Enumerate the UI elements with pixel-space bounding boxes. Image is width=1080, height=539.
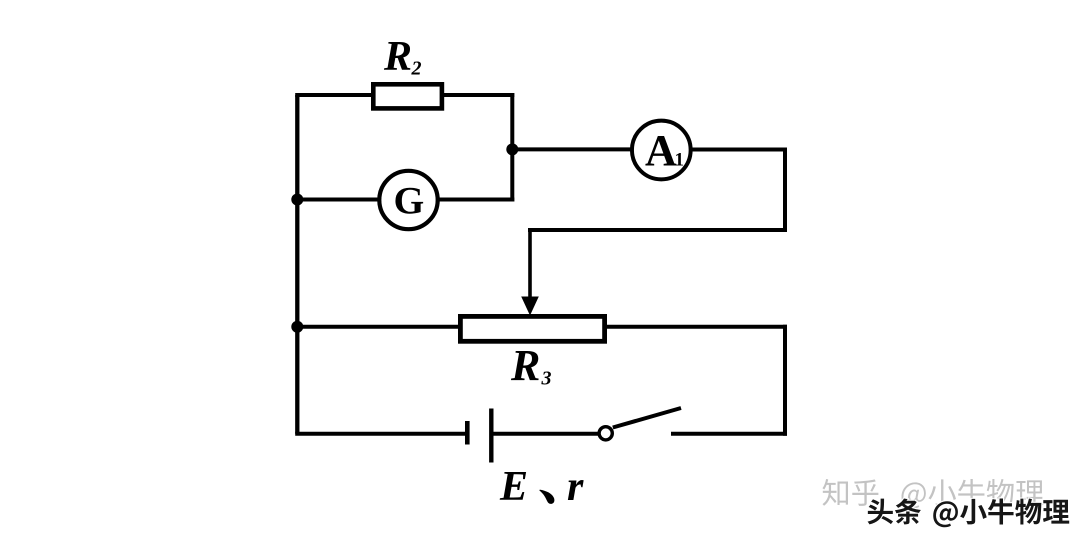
wire left to R3 bbox=[297, 325, 462, 329]
wire top-left horizontal to R2 bbox=[295, 93, 373, 97]
svg-text:R: R bbox=[383, 34, 412, 80]
switch pivot circle bbox=[599, 427, 612, 440]
wire junction to A1 bbox=[512, 147, 632, 151]
wiper arrowhead bbox=[521, 297, 539, 316]
wire left to G bbox=[297, 198, 380, 202]
svg-text:1: 1 bbox=[675, 150, 685, 171]
svg-text:R: R bbox=[510, 341, 540, 390]
svg-text:2: 2 bbox=[411, 58, 422, 80]
node junction left G branch bbox=[291, 194, 303, 206]
rheostat R3 body bbox=[460, 316, 604, 341]
battery positive plate (long) bbox=[489, 409, 493, 463]
label dunhao comma bbox=[539, 490, 554, 504]
svg-text:A: A bbox=[645, 126, 677, 175]
wire right vertical upper bbox=[783, 148, 787, 233]
wire right vertical lower bbox=[783, 325, 787, 436]
watermark zhihu line (gray) bbox=[822, 479, 848, 506]
ammeter A1 bbox=[632, 121, 691, 180]
svg-text:3: 3 bbox=[541, 368, 552, 390]
wire R2 to top-right corner bbox=[443, 93, 514, 97]
wire R3 to right bbox=[603, 325, 787, 329]
wire switch to right bbox=[671, 432, 787, 436]
wire G to right vertical bbox=[438, 198, 514, 202]
wire right vertical of input mesh bbox=[510, 93, 514, 202]
node junction left R3 bbox=[291, 321, 303, 333]
wire battery to switch bbox=[491, 432, 599, 436]
svg-text:G: G bbox=[394, 179, 425, 223]
wire A1 to right bbox=[691, 148, 787, 152]
switch blade bbox=[613, 408, 681, 428]
watermark toutiao line (dark) bbox=[868, 499, 893, 525]
battery negative plate (short) bbox=[465, 421, 470, 445]
node junction to A1 branch bbox=[506, 143, 518, 155]
svg-text:r: r bbox=[567, 464, 584, 510]
resistor R2 body bbox=[373, 84, 442, 108]
wire left vertical bbox=[295, 95, 299, 434]
galvanometer G bbox=[379, 171, 437, 229]
wire horizontal to wiper bbox=[528, 228, 787, 232]
wire bottom left segment bbox=[295, 432, 467, 436]
svg-text:E: E bbox=[499, 464, 528, 510]
wire wiper vertical bbox=[528, 228, 532, 303]
